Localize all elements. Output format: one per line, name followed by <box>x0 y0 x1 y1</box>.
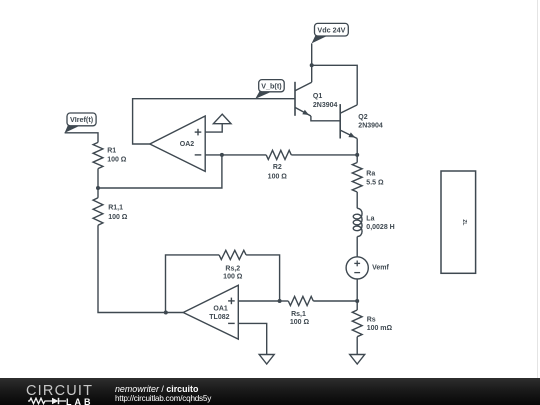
svg-text:5.5 Ω: 5.5 Ω <box>366 179 384 186</box>
svg-text:100 mΩ: 100 mΩ <box>367 325 393 332</box>
svg-text:2N3904: 2N3904 <box>313 102 338 109</box>
inductor La <box>353 208 362 236</box>
svg-text:100 Ω: 100 Ω <box>107 157 127 164</box>
svg-text:Q1: Q1 <box>313 93 322 100</box>
junction OA1 +/Rs,2 <box>278 299 282 303</box>
wire to Rs,1 <box>280 300 289 302</box>
junction OA2 - input <box>220 153 224 157</box>
flag VIref(t) <box>65 113 97 133</box>
svg-text:2N3904: 2N3904 <box>358 123 383 130</box>
wire Ra to La <box>356 192 358 208</box>
svg-text:Vdc 24V: Vdc 24V <box>317 26 345 35</box>
wire R2 to emitter node <box>291 154 357 156</box>
wire Q1 emitter to Q2 base <box>311 116 340 121</box>
resistor R1,1 <box>93 198 103 225</box>
svg-text:Ra: Ra <box>366 170 375 177</box>
svg-text:Rs: Rs <box>367 316 376 323</box>
wire to Ra <box>356 155 358 163</box>
wire Vdc to collector node <box>311 43 313 65</box>
wire node to Rs <box>356 301 358 310</box>
transistor Q1 <box>295 82 312 116</box>
svg-text:V_b(t): V_b(t) <box>261 82 282 91</box>
resistor Rs <box>352 310 362 337</box>
junction Vemf/Rs,1/Rs <box>355 299 359 303</box>
svg-text:100 Ω: 100 Ω <box>290 319 310 326</box>
wire Rs,2 to output node <box>166 255 220 313</box>
resistor R1 <box>93 142 103 168</box>
svg-text:100 Ω: 100 Ω <box>223 274 243 281</box>
wire La to Vemf <box>356 237 358 257</box>
wire R1,1 to OA1 output <box>98 225 183 312</box>
svg-text:ZL: ZL <box>461 219 467 225</box>
junction collector supply <box>310 63 314 67</box>
svg-text:VIref(t): VIref(t) <box>70 115 94 124</box>
svg-text:La: La <box>366 216 374 223</box>
svg-text:R2: R2 <box>273 164 282 171</box>
wire supply to Q1 collector <box>311 65 313 82</box>
svg-text:0,0028 H: 0,0028 H <box>366 224 394 231</box>
wire OA1 + input <box>238 300 279 302</box>
flag Vdc 24V <box>312 23 349 43</box>
junction emitter/R2/Ra <box>355 153 359 157</box>
wire supply to Q2 collector <box>312 65 358 105</box>
resistor Rs,1 <box>288 296 313 305</box>
power arrow at OA2 + input <box>213 114 231 124</box>
impedance box ZL <box>441 171 476 273</box>
wire to Rs,2 <box>246 255 280 301</box>
resistor Ra <box>352 163 362 193</box>
svg-text:100 Ω: 100 Ω <box>268 173 288 180</box>
CircuitLab logo <box>26 378 96 405</box>
wire Vemf to node <box>356 279 358 301</box>
resistor Rs,2 <box>219 250 246 259</box>
transistor Q2 <box>340 104 357 138</box>
svg-text:100 Ω: 100 Ω <box>108 214 128 221</box>
op-amp OA1 <box>183 285 238 339</box>
wire OA2 - input to R2 <box>205 154 266 156</box>
wire R1 to node <box>97 169 99 188</box>
wire node to R1,1 <box>97 188 99 198</box>
svg-text:Rs,1: Rs,1 <box>291 311 306 318</box>
junction R1/R1,1/feedback <box>96 186 100 190</box>
resistor motif <box>28 399 52 405</box>
flag V_b(t) <box>255 80 284 99</box>
svg-text:OA2: OA2 <box>180 141 195 148</box>
svg-text:Vemf: Vemf <box>372 264 389 271</box>
resistor R2 <box>266 150 291 159</box>
ground under Rs <box>350 355 365 365</box>
wire Rs to ground <box>356 337 358 355</box>
svg-text:TL082: TL082 <box>209 314 229 321</box>
ground under OA1 <box>259 355 274 365</box>
wire Q2 emitter down <box>356 139 358 155</box>
wire OA2 output to Q1 base <box>133 99 295 144</box>
footer bar <box>0 378 540 405</box>
wire node to OA2 inverting input <box>98 155 222 188</box>
wire OA2 + input to VCC arrow <box>205 124 222 132</box>
wire flag to R1 <box>65 133 98 143</box>
svg-text:Rs,2: Rs,2 <box>225 265 240 272</box>
svg-text:R1: R1 <box>107 147 116 154</box>
svg-text:OA1: OA1 <box>213 306 228 313</box>
diode motif <box>52 398 59 404</box>
junction OA1 output/Rs,2 <box>164 311 168 315</box>
voltage source Vemf <box>346 257 368 279</box>
svg-text:Q2: Q2 <box>358 114 367 121</box>
svg-text:R1,1: R1,1 <box>108 205 123 212</box>
wire OA1 - input to ground <box>238 323 266 354</box>
wire Rs,1 to node <box>313 300 357 302</box>
op-amp OA2 <box>150 116 205 171</box>
